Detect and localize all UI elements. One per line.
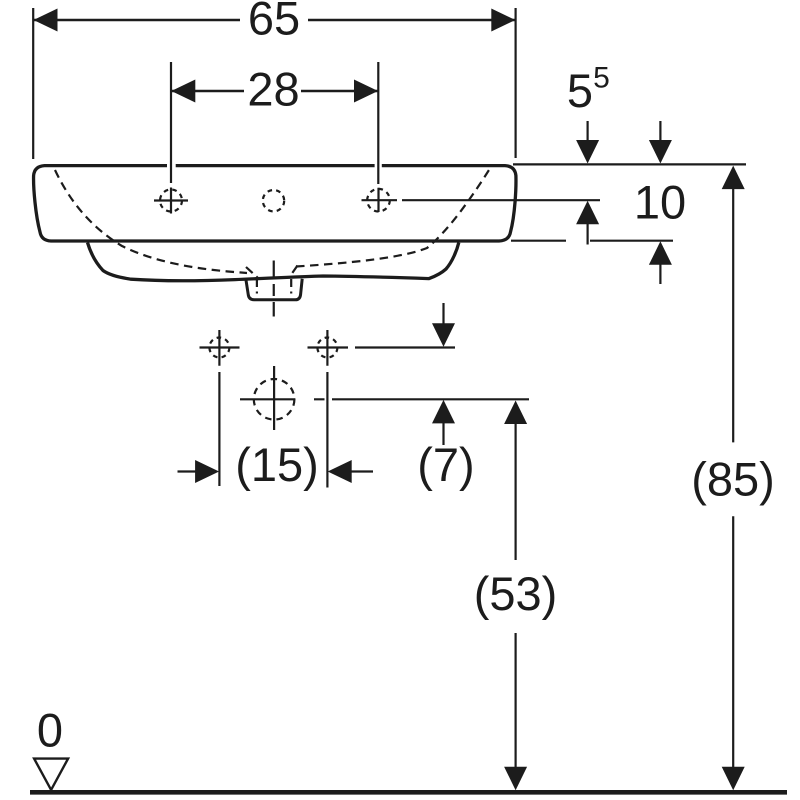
- fixing hole right: crosshair: [308, 330, 349, 366]
- faucet hole centre (optional, dashed): [263, 190, 284, 211]
- dimension 15: right arrowhead pointing left: [328, 460, 352, 483]
- dimension 53: up arrowhead: [504, 401, 527, 425]
- reference line from faucet holes to the right: [402, 199, 600, 201]
- dimension 85: down arrowhead at floor: [722, 767, 745, 791]
- dimension 65: left arrowhead: [34, 9, 58, 32]
- dimension 5.5: left down arrow stem: [586, 121, 588, 141]
- faucet hole right: dashed circle: [367, 189, 390, 212]
- dimension 15: right extension line: [326, 372, 328, 488]
- svg-text:10: 10: [634, 176, 686, 229]
- dimension 28: right arrowhead: [354, 80, 378, 103]
- svg-text:0: 0: [37, 703, 63, 756]
- dimension 5.5: left down arrowhead: [576, 140, 599, 164]
- dimension 85: up arrowhead: [722, 166, 745, 190]
- dimension 10: up arrow stem: [659, 264, 661, 284]
- dimension 28: dimension line left segment: [171, 90, 244, 93]
- faucet hole left: dashed circle: [160, 190, 182, 212]
- dimension 65: right extension line: [514, 8, 516, 158]
- dimension 5.5: up arrowhead at faucet line: [576, 201, 599, 225]
- reference line from right fixing hole: [355, 346, 455, 348]
- fixing hole right: dashed circle: [317, 338, 337, 358]
- drain outlet dashed inner wall left: [256, 279, 258, 294]
- washbasin rim top edge middle segment: [176, 164, 375, 167]
- siphon hole: dashed circle: [254, 379, 295, 420]
- dimension 53: upper stem: [514, 423, 516, 560]
- drain outlet dashed inner wall right: [290, 279, 292, 294]
- datum triangle symbol: [34, 759, 68, 790]
- fixing hole left: dashed circle: [209, 338, 229, 358]
- faucet hole left: crosshair: [154, 188, 188, 214]
- svg-text:5: 5: [593, 62, 610, 95]
- svg-text:5: 5: [567, 64, 593, 117]
- dimension 15: right arrow tail: [351, 470, 373, 472]
- dimension 28: left arrowhead: [171, 80, 195, 103]
- drain centre line: [273, 261, 275, 317]
- dimension 53: lower stem: [514, 633, 516, 768]
- dimension 65: dimension line left segment: [33, 19, 240, 22]
- dimension 7: down arrowhead: [432, 323, 455, 347]
- dimension 7: up arrowhead: [432, 400, 455, 424]
- drain outlet box: [246, 279, 302, 300]
- dimension 15: left arrow tail: [178, 470, 197, 472]
- siphon hole: crosshair horizontal with dash: [240, 398, 529, 400]
- dimension 85: lower stem: [732, 516, 734, 767]
- bowl outlet funnel left dashed edge: [246, 267, 258, 278]
- dimension 28: dimension line right segment: [301, 90, 378, 93]
- dimension 65: right arrowhead: [491, 9, 515, 32]
- siphon hole: crosshair vertical: [273, 366, 275, 430]
- fixing hole left: crosshair: [200, 330, 240, 366]
- top edge reference line to the right: [513, 163, 746, 165]
- dimension 15: left extension line: [218, 372, 220, 486]
- bowl outlet funnel right dashed edge: [290, 266, 298, 278]
- dimension 53: down arrowhead at floor: [504, 767, 527, 791]
- dimension 28: right extension line: [377, 62, 379, 184]
- dimension 10: up arrowhead: [649, 241, 672, 264]
- dimension 7: up arrow stem: [442, 423, 444, 446]
- dimension 7: down arrow stem: [442, 303, 444, 325]
- bottom edge reference line to the right: [511, 240, 673, 242]
- washbasin rim outline (front view): [34, 166, 516, 241]
- svg-text:65: 65: [248, 0, 300, 45]
- svg-text:(85): (85): [691, 453, 775, 506]
- dimension 10: down arrowhead: [649, 140, 672, 164]
- washbasin inner bowl outline (dashed): [55, 170, 489, 273]
- svg-text:(15): (15): [235, 438, 319, 491]
- svg-text:28: 28: [247, 63, 299, 116]
- dimension 10: down arrow stem: [659, 121, 661, 141]
- faucet hole right: crosshair: [362, 188, 398, 212]
- dimension 28: left extension line: [170, 62, 172, 183]
- svg-text:(53): (53): [474, 567, 558, 620]
- washbasin underside outline: [88, 243, 459, 281]
- dimension 15: left arrowhead pointing right: [195, 460, 219, 483]
- dimension 65: left extension line: [32, 8, 34, 159]
- dimension 5.5: up arrow stem: [586, 224, 588, 245]
- dimension 65: dimension line right segment: [308, 19, 516, 22]
- svg-text:(7): (7): [417, 438, 474, 491]
- dimension 85: upper stem: [732, 188, 734, 442]
- floor line: [30, 790, 787, 795]
